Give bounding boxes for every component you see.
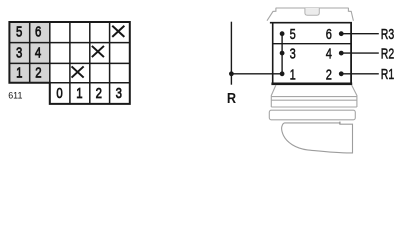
wire pin 4 to R2 [341,52,379,54]
svg-text:1: 1 [290,66,296,83]
node pin 5 [280,31,285,36]
svg-text:1: 1 [76,84,82,101]
pin box bottom bar [271,83,352,86]
node pin 3 [280,51,285,56]
node junction R [229,71,234,76]
svg-text:1: 1 [16,64,22,81]
svg-text:2: 2 [96,84,102,101]
connector collar [269,110,355,120]
wire pin 6 to R3 [341,33,379,35]
svg-text:R1: R1 [381,65,394,82]
node pin 2 [339,71,344,76]
svg-text:4: 4 [326,45,332,62]
node pin 6 [339,31,344,36]
coordinate table gray header block [9,22,49,83]
svg-text:5: 5 [290,25,296,42]
wire pin 2 to R1 [341,73,379,75]
table inner grid lines [9,22,129,104]
wire R bus vertical [230,22,232,85]
pin box left edge [272,23,274,83]
svg-text:6: 6 [326,25,332,42]
X mark row 5-6 column 3 [112,26,124,37]
svg-text:3: 3 [290,45,296,62]
pin box divider line [273,43,351,45]
connector ribbed neck section [271,85,357,107]
svg-text:5: 5 [16,23,22,40]
connector lower body [282,123,353,153]
svg-text:R: R [227,89,236,106]
svg-text:2: 2 [35,64,41,81]
pin box top edge [270,22,352,24]
wire R to pin 1 [231,73,282,75]
svg-text:3: 3 [116,84,122,101]
svg-text:4: 4 [35,44,42,61]
svg-text:R2: R2 [381,44,394,61]
svg-text:0: 0 [56,84,62,101]
svg-text:R3: R3 [381,25,394,42]
connector body notch stub [339,122,341,125]
pin box right edge [350,23,352,83]
connector housing latch tab [305,8,319,15]
connector housing top outline [267,8,353,21]
svg-text:611: 611 [8,90,22,100]
X mark row 1-2 column 1 [72,66,84,77]
node pin 4 [339,51,344,56]
X mark row 3-4 column 2 [92,46,104,57]
wire pins 5-3-1 internal bus [281,34,283,74]
table outer border [9,22,129,104]
svg-text:3: 3 [16,44,22,61]
svg-text:2: 2 [326,66,332,83]
svg-text:6: 6 [35,23,41,40]
node pin 1 [280,71,285,76]
